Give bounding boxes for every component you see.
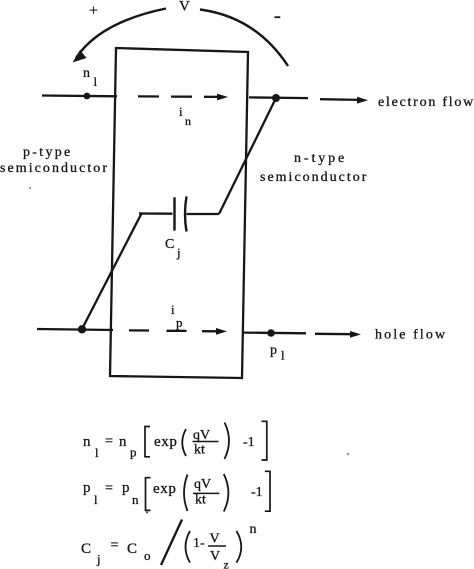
svg-text:+: + xyxy=(89,3,98,20)
svg-text:electron flow: electron flow xyxy=(378,95,474,110)
svg-text:V: V xyxy=(210,532,220,547)
node p1 dot xyxy=(267,329,275,337)
svg-text:-1: -1 xyxy=(243,435,255,450)
svg-text:n-type: n-type xyxy=(294,151,347,166)
wire: dashed arrow to hole flow xyxy=(315,331,361,338)
wire: hole line left segment xyxy=(37,329,113,330)
svg-text:l: l xyxy=(281,348,285,363)
svg-text:exp: exp xyxy=(153,481,176,497)
svg-text:l: l xyxy=(95,445,99,460)
svg-text:n: n xyxy=(185,114,191,128)
svg-text:n: n xyxy=(250,522,257,537)
svg-text:z: z xyxy=(224,558,229,569)
label p1 xyxy=(270,343,285,363)
voltage arc V (left half) xyxy=(73,9,167,63)
svg-text:p: p xyxy=(83,480,91,496)
svg-text:-1: -1 xyxy=(251,485,263,500)
svg-text:l: l xyxy=(94,492,98,507)
svg-text:l: l xyxy=(94,74,98,89)
svg-text:j: j xyxy=(96,552,101,567)
svg-text:n: n xyxy=(83,66,90,81)
svg-text:kt: kt xyxy=(195,493,206,508)
svg-text:C: C xyxy=(165,237,174,252)
wire: dashed arrow to electron flow xyxy=(320,97,368,104)
speck noise xyxy=(347,453,350,456)
junction dot bottom left xyxy=(78,325,86,333)
equation 1: n1 = np [exp(qV/kt) -1] xyxy=(83,421,267,460)
svg-text:=: = xyxy=(105,434,113,449)
svg-text:i: i xyxy=(171,302,175,317)
wire: electron line left segment xyxy=(42,94,117,97)
wire: diagonal from bottom junction to capacitor left xyxy=(82,213,142,330)
label n-type semiconductor xyxy=(260,151,368,185)
node n1 dot xyxy=(84,93,91,100)
wire: diagonal from capacitor right to top junction xyxy=(219,98,276,214)
svg-text:1-: 1- xyxy=(193,536,205,551)
svg-text:i: i xyxy=(179,104,183,119)
wire: hole line right of box xyxy=(243,331,306,334)
svg-text:=: = xyxy=(105,481,113,496)
svg-text:C: C xyxy=(81,541,91,557)
capacitor Cj xyxy=(139,196,219,231)
svg-text:hole flow: hole flow xyxy=(375,328,447,343)
wire: dashed current arrow i_p xyxy=(129,328,227,335)
wire: electron line right of box xyxy=(249,96,308,99)
svg-text:qV: qV xyxy=(194,477,211,492)
svg-text:kt: kt xyxy=(194,443,205,458)
equation 2: p1 = pn [exp(qV/kt) -1] xyxy=(83,471,270,511)
junction dot top right xyxy=(272,94,280,102)
label i_p xyxy=(171,302,183,330)
junction box xyxy=(110,48,248,378)
svg-text:exp: exp xyxy=(154,434,177,450)
svg-text:n: n xyxy=(119,434,127,450)
svg-text:semiconductor: semiconductor xyxy=(0,161,109,176)
svg-text:p: p xyxy=(122,480,130,496)
equation 3: Cj = Co /(1- V/Vz)^n xyxy=(81,520,257,569)
wire: dashed current arrow i_n xyxy=(138,94,228,101)
label i_n xyxy=(179,104,191,128)
svg-text:p-type: p-type xyxy=(23,145,73,160)
label Cj xyxy=(165,237,181,260)
svg-text:V: V xyxy=(179,0,190,15)
svg-text:p: p xyxy=(176,315,183,330)
svg-text:V: V xyxy=(210,549,220,564)
svg-text:o: o xyxy=(144,548,151,563)
svg-text:n: n xyxy=(132,492,139,507)
svg-text:n: n xyxy=(83,434,91,450)
label p-type semiconductor xyxy=(0,145,109,176)
svg-text:=: = xyxy=(111,538,119,553)
svg-text:j: j xyxy=(176,245,181,260)
svg-text:C: C xyxy=(127,541,137,557)
svg-text:p: p xyxy=(270,343,277,358)
svg-text:p: p xyxy=(130,445,137,460)
svg-text:semiconductor: semiconductor xyxy=(260,170,368,185)
label minus xyxy=(275,16,281,18)
voltage arc V (right half) xyxy=(200,10,288,67)
label n1 xyxy=(83,66,98,89)
